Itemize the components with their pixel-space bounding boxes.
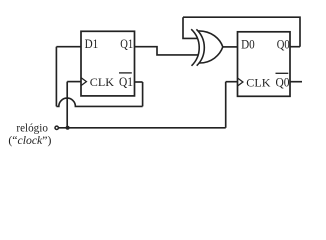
junction dot xyxy=(66,126,70,130)
XOR gate U1 body xyxy=(196,29,204,65)
svg-text:CLK: CLK xyxy=(90,76,115,89)
D flip-flop FF0 box xyxy=(238,32,291,97)
wire XOR top input xyxy=(183,17,198,38)
wire feedback right vertical xyxy=(142,82,144,106)
XOR gate U1 input arc xyxy=(191,29,199,66)
wire XOR output to D0 xyxy=(223,46,238,48)
svg-text:(“clock”): (“clock”) xyxy=(8,133,51,147)
wire Q1bar stub xyxy=(135,81,143,83)
wire Q1 to XOR lower input xyxy=(135,47,199,55)
clock triangle FF0 xyxy=(238,78,243,86)
wire Q0bar stub xyxy=(290,81,302,83)
wire feedback bottom with hop xyxy=(56,98,142,106)
wire feedback left vertical (Q1bar to D1) xyxy=(55,47,57,107)
svg-text:Q1: Q1 xyxy=(120,37,133,51)
svg-text:Q0: Q0 xyxy=(277,38,290,52)
wire Q0 stub to loop xyxy=(290,46,300,48)
wire clock right vertical xyxy=(225,82,227,128)
D flip-flop FF1 box xyxy=(81,31,135,96)
clock triangle FF1 xyxy=(81,78,86,86)
svg-text:D1: D1 xyxy=(85,37,99,51)
wire D1 input xyxy=(56,46,81,48)
svg-text:Q0: Q0 xyxy=(276,76,290,90)
wire CLK FF0 stub xyxy=(226,81,238,83)
svg-text:CLK: CLK xyxy=(246,77,271,90)
wire clock horizontal xyxy=(59,127,226,129)
overline Q0bar xyxy=(276,72,289,74)
wire clock vertical left xyxy=(66,82,68,128)
clock terminal circle xyxy=(55,126,58,129)
wire CLK FF1 xyxy=(67,81,81,83)
svg-text:Q1: Q1 xyxy=(119,75,133,89)
wire top feedback loop xyxy=(183,17,300,47)
svg-text:D0: D0 xyxy=(241,38,255,52)
overline Q1bar xyxy=(119,72,132,74)
